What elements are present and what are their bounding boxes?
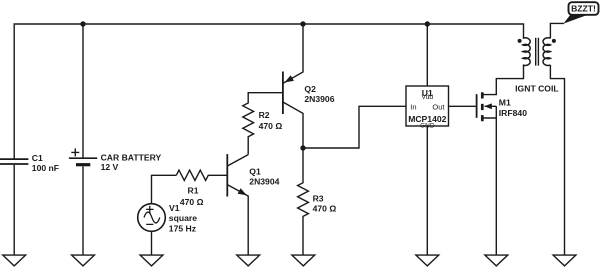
svg-text:R3: R3: [313, 194, 324, 204]
svg-text:R1: R1: [188, 186, 199, 196]
svg-text:IGNT COIL: IGNT COIL: [515, 83, 558, 93]
svg-text:175 Hz: 175 Hz: [169, 223, 196, 233]
svg-text:2N3904: 2N3904: [249, 177, 279, 187]
svg-text:C1: C1: [32, 153, 43, 163]
svg-text:CAR BATTERY: CAR BATTERY: [101, 153, 162, 163]
svg-text:100 nF: 100 nF: [32, 163, 59, 173]
svg-text:BZZT!: BZZT!: [571, 3, 596, 13]
svg-text:Q1: Q1: [249, 166, 261, 176]
svg-text:Vdd: Vdd: [422, 94, 434, 101]
svg-text:R2: R2: [259, 110, 270, 120]
svg-text:Out: Out: [432, 102, 445, 111]
svg-text:470 Ω: 470 Ω: [180, 197, 204, 207]
svg-text:GND: GND: [420, 123, 435, 130]
svg-text:In: In: [410, 102, 416, 111]
svg-text:M1: M1: [499, 98, 511, 108]
svg-text:470 Ω: 470 Ω: [259, 121, 283, 131]
svg-text:IRF840: IRF840: [499, 108, 527, 118]
svg-text:2N3906: 2N3906: [304, 94, 334, 104]
svg-text:12 V: 12 V: [101, 162, 119, 172]
svg-text:470 Ω: 470 Ω: [313, 204, 337, 214]
svg-text:Q2: Q2: [304, 84, 316, 94]
svg-text:V1: V1: [169, 203, 180, 213]
svg-text:square: square: [169, 213, 197, 223]
